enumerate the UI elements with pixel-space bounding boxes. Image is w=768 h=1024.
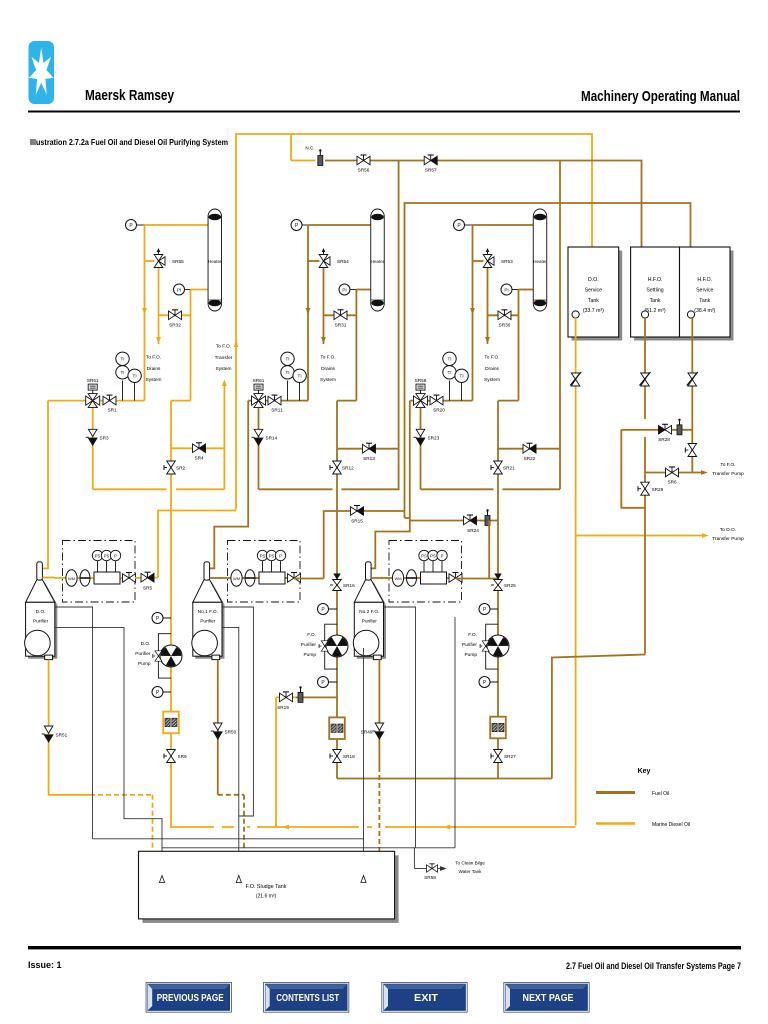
svg-text:To F.O.: To F.O. (320, 355, 335, 361)
header rule (28, 111, 740, 113)
bypass valve pump-2 (319, 641, 328, 651)
valve SR23 (414, 429, 440, 445)
svg-text:2.7 Fuel Oil and Diesel Oil Tr: 2.7 Fuel Oil and Diesel Oil Transfer Sys… (566, 961, 741, 972)
relief valve SR53 (483, 248, 513, 268)
valve SR29 (638, 482, 664, 495)
svg-text:SR24: SR24 (467, 528, 479, 533)
valve SR20 (430, 395, 445, 412)
gauge P pump-2 top (318, 604, 329, 615)
wire MDO SR19 branch (276, 697, 337, 827)
svg-text:SR49: SR49 (361, 730, 373, 735)
svg-text:SR18: SR18 (343, 754, 355, 759)
svg-text:Service: Service (585, 287, 602, 293)
wire box-2 outlet (294, 578, 324, 580)
svg-text:SR19: SR19 (277, 705, 289, 710)
thermometers TI system 2 (281, 352, 307, 382)
wire FO heater-2 loop (302, 225, 371, 401)
wire MDO crossover SR5 riser (158, 511, 236, 578)
svg-text:Tank: Tank (699, 298, 710, 304)
wire MDO heater-1 loop (137, 225, 209, 401)
wire FO heater-3 loop (465, 225, 534, 401)
svg-text:To F.O.: To F.O. (146, 355, 161, 361)
wire MDO purifier-1 feed (43, 401, 48, 569)
svg-text:To D.O.: To D.O. (720, 527, 736, 533)
svg-text:To F.O.: To F.O. (484, 355, 499, 361)
gauge P pump-2 bottom (318, 677, 329, 688)
valve SR16 (330, 574, 355, 591)
svg-text:N.C.: N.C. (305, 146, 314, 151)
valve SR57 (424, 155, 437, 173)
flow arrow up on MDO riser (234, 340, 239, 347)
wire MDO to D.O. transfer pump (576, 533, 709, 538)
wire FO manifold-3 (410, 381, 560, 490)
valve SR21 (491, 461, 515, 474)
svg-text:SR21: SR21 (503, 466, 515, 471)
quick-closing valve service tank (687, 372, 698, 386)
svg-text:F.O. Sludge Tank: F.O. Sludge Tank (246, 884, 287, 890)
gauge P pump-1 top (152, 613, 163, 624)
pressure gauge P heater-1 (126, 220, 137, 231)
wire FO pump column 2 (318, 489, 338, 778)
wire drain purifier-2 a (222, 607, 253, 816)
wire MDO manifold-1 (48, 381, 224, 490)
button exit (382, 982, 468, 1013)
wire drain purifier-2 b (222, 627, 239, 874)
svg-text:SR61: SR61 (87, 378, 99, 383)
gauge P pump-3 top (479, 604, 490, 615)
valve SR24 (464, 515, 480, 533)
svg-text:SR30: SR30 (499, 323, 511, 328)
svg-text:Drains: Drains (485, 366, 499, 372)
wire FO service tank outlet (691, 318, 693, 473)
svg-text:F.O.: F.O. (307, 632, 316, 638)
wire FO purifier-3 feed (371, 401, 410, 569)
svg-text:SR58: SR58 (415, 378, 427, 383)
svg-text:Pump: Pump (303, 652, 316, 658)
pressure gauge P heater-3 (454, 220, 465, 231)
label to F.O. transfer pump (712, 462, 744, 477)
wire purifier-3 nozzle link (371, 577, 383, 579)
footer issue (28, 960, 62, 970)
svg-text:Purifier: Purifier (135, 651, 151, 657)
key title (638, 768, 651, 775)
filter pump-2 (329, 717, 345, 739)
svg-text:F.O.: F.O. (468, 632, 477, 638)
svg-text:SR50: SR50 (225, 730, 237, 735)
valve SR11 (268, 395, 283, 412)
valve SR18 (330, 750, 355, 763)
wire FO crossover SR15 (324, 511, 405, 579)
svg-text:SR51: SR51 (56, 733, 68, 738)
svg-text:Service: Service (696, 287, 713, 293)
header manual title (581, 88, 740, 105)
valve SR51 (42, 726, 68, 742)
svg-text:SR12: SR12 (342, 466, 354, 471)
svg-text:Machinery Operating Manual: Machinery Operating Manual (581, 88, 740, 105)
label F.O. purifier pump 2 (462, 632, 478, 658)
svg-text:Key: Key (638, 768, 651, 775)
label D.O. purifier pump (135, 641, 151, 667)
svg-text:Maersk Ramsey: Maersk Ramsey (85, 88, 174, 104)
wire MDO SR51 column (49, 660, 153, 851)
svg-text:Issue: 1: Issue: 1 (28, 960, 62, 970)
tank H.F.O. settling (631, 247, 683, 341)
svg-text:Tank: Tank (650, 298, 661, 304)
svg-text:NEXT PAGE: NEXT PAGE (523, 993, 574, 1004)
thermometers TI system 3 (443, 352, 469, 382)
svg-text:Pump: Pump (464, 652, 477, 658)
wire FO to transfer pump (645, 470, 708, 475)
Maersk logo (29, 41, 55, 104)
valve SR22 (523, 443, 536, 461)
valve SR15 (351, 506, 364, 524)
wire drain purifier-1 a (55, 607, 93, 839)
svg-text:SR20: SR20 (433, 408, 445, 413)
pump D.O. purifier pump (160, 645, 182, 667)
svg-text:SR2: SR2 (176, 466, 186, 471)
gate valve at SR24 (485, 509, 490, 525)
footer rule (28, 946, 741, 949)
svg-text:SR5: SR5 (143, 586, 153, 591)
valve SR13 (363, 443, 376, 461)
svg-text:SR28: SR28 (658, 437, 670, 442)
svg-text:System: System (146, 377, 162, 383)
wire FO SR49 column (378, 660, 380, 851)
svg-text:SR27: SR27 (504, 754, 516, 759)
wire box-3 outlet (456, 521, 499, 579)
control box purifier-3 (381, 541, 462, 603)
heater No.2 (371, 209, 385, 311)
wire MDO top header line (236, 134, 592, 510)
svg-text:To F.O.: To F.O. (216, 344, 231, 350)
wire FO settling outlet upper (644, 318, 646, 419)
valve SR4 (193, 443, 206, 461)
svg-text:EXIT: EXIT (414, 993, 438, 1004)
wire FO crossover SR24 (410, 520, 498, 522)
svg-text:SR6: SR6 (667, 480, 677, 485)
control box purifier-1 (55, 541, 136, 603)
gauge PI heater-3 (501, 284, 512, 295)
svg-text:Purifier: Purifier (462, 642, 478, 648)
valve SR49 (361, 723, 384, 739)
valve SR9 (164, 750, 187, 763)
valve SR50 (211, 723, 237, 739)
svg-text:SR31: SR31 (335, 323, 347, 328)
svg-text:Settling: Settling (646, 287, 663, 293)
svg-text:PREVIOUS PAGE: PREVIOUS PAGE (157, 993, 224, 1004)
svg-text:Marine Diesel Oil: Marine Diesel Oil (652, 822, 690, 828)
svg-text:H.F.O.: H.F.O. (697, 277, 712, 283)
thermometers TI system 1 (116, 352, 142, 382)
valve SR32 (169, 310, 182, 328)
label to clean bilge water tank (455, 861, 485, 875)
svg-text:Drains: Drains (321, 366, 335, 372)
svg-text:SR54: SR54 (337, 259, 349, 264)
svg-text:System: System (484, 377, 500, 383)
svg-text:System: System (216, 366, 232, 372)
wire MDO D.O. tank outlet (575, 318, 577, 826)
valve SR56 (357, 155, 370, 173)
pump No.2 F.O. purifier pump (487, 635, 509, 657)
svg-text:SR56: SR56 (358, 168, 370, 173)
svg-text:SR22: SR22 (524, 456, 536, 461)
4-way valve SR61 no.2 (252, 378, 266, 408)
svg-text:No.2 F.O.: No.2 F.O. (359, 609, 379, 615)
wire FO header line B (405, 203, 691, 518)
svg-text:Tank: Tank (588, 298, 599, 304)
to FO transfer system label (215, 344, 233, 373)
gate valve at SR28 (677, 419, 682, 435)
purifier No.2 F.O. (353, 562, 386, 660)
wire drain header 2 (162, 848, 455, 869)
relief valve SR54 (319, 248, 349, 268)
gauge PI heater-1 (174, 284, 185, 295)
svg-text:SR57: SR57 (425, 168, 437, 173)
wire to clean bilge (414, 866, 446, 871)
filter pump-1 (163, 712, 179, 734)
svg-text:SR23: SR23 (428, 436, 440, 441)
bypass valve pump-1 (153, 651, 162, 661)
filter pump-3 (490, 717, 506, 739)
N.C. valve (305, 146, 322, 166)
svg-text:No.1 F.O.: No.1 F.O. (198, 609, 218, 615)
svg-text:(21.6 m³): (21.6 m³) (256, 894, 277, 900)
label to D.O. transfer pump (712, 527, 744, 542)
svg-text:(38.4 m³): (38.4 m³) (694, 308, 715, 314)
svg-text:Drains: Drains (147, 366, 161, 372)
gauge PI heater-2 (339, 284, 350, 295)
svg-text:Transfer: Transfer (215, 355, 233, 361)
valve SR14 (252, 429, 278, 445)
svg-text:SR15: SR15 (351, 519, 363, 524)
svg-text:Purifier: Purifier (33, 619, 49, 625)
valve SR25 (491, 574, 516, 591)
svg-text:Transfer Pump: Transfer Pump (712, 536, 744, 542)
wire FO purifier-2 feed (210, 401, 248, 569)
button contents list (263, 982, 349, 1013)
svg-text:Water Tank: Water Tank (459, 869, 483, 874)
tank H.F.O. service (680, 247, 734, 341)
valve SR31 (334, 310, 347, 328)
key fuel oil (596, 791, 669, 797)
heater No.1 (208, 209, 222, 311)
valve SR3 (86, 429, 109, 445)
wire drain header 1 (93, 838, 364, 840)
svg-text:SR32: SR32 (169, 323, 181, 328)
tank D.O. service (568, 247, 622, 341)
svg-text:SR58: SR58 (424, 875, 436, 880)
to FO drains system label 2 (320, 355, 336, 384)
header ship name (85, 88, 174, 104)
svg-text:Illustration 2.7.2a Fuel Oil a: Illustration 2.7.2a Fuel Oil and Diesel … (30, 137, 228, 147)
svg-text:SR25: SR25 (504, 583, 516, 588)
svg-text:To Clean Bilge: To Clean Bilge (455, 861, 485, 866)
label F.O. purifier pump 1 (301, 632, 317, 658)
svg-text:D.O.: D.O. (36, 609, 46, 615)
svg-text:SR1: SR1 (107, 408, 117, 413)
svg-text:Purifier: Purifier (362, 619, 378, 625)
wire drain box-3 (384, 607, 456, 848)
tank F.O. sludge (139, 851, 399, 923)
valve SR30 (498, 310, 511, 328)
gauge P pump-1 bottom (152, 687, 163, 698)
control box purifier-2 (220, 541, 301, 603)
svg-text:D.O.: D.O. (588, 277, 599, 283)
valve SR19 (277, 692, 292, 710)
valve SR27 (491, 750, 516, 763)
wire FO settling outlet lower (337, 437, 645, 779)
svg-text:SR13: SR13 (363, 456, 375, 461)
wire drain purifier-3 a (363, 648, 365, 874)
to FO drains system label 3 (484, 355, 500, 384)
valve SR28 (658, 424, 671, 442)
svg-text:Purifier: Purifier (301, 642, 317, 648)
wire purifier-1 nozzle link (42, 577, 54, 579)
purifier D.O. (25, 562, 58, 660)
svg-text:SR4: SR4 (194, 456, 204, 461)
svg-text:D.O.: D.O. (141, 641, 151, 647)
4-way valve SR58 no.3 (414, 378, 428, 408)
svg-text:To F.O.: To F.O. (720, 462, 735, 468)
wire FO pump column 3 (479, 489, 499, 778)
wire MDO bottom return (171, 825, 576, 830)
wire drain purifier-1 b (55, 627, 162, 874)
wire FO header line A (325, 161, 642, 491)
svg-text:SR16: SR16 (343, 583, 355, 588)
valve SR58 bilge (424, 864, 437, 880)
wire FO SR28 crossover (621, 430, 692, 508)
button next page (504, 982, 590, 1013)
pump No.1 F.O. purifier pump (326, 635, 348, 657)
wire MDO pump column 1 (152, 489, 171, 825)
svg-text:Pump: Pump (138, 661, 151, 667)
wire purifier-2 nozzle link (210, 577, 222, 579)
illustration title (30, 137, 228, 147)
heater No.3 (533, 209, 547, 311)
svg-text:H.F.O.: H.F.O. (648, 277, 663, 283)
footer section title (566, 961, 741, 972)
valve SR7 (685, 444, 696, 457)
svg-text:SR53: SR53 (501, 259, 513, 264)
svg-text:SR3: SR3 (100, 436, 110, 441)
svg-text:Purifier: Purifier (200, 619, 216, 625)
valve SR1 (103, 395, 117, 412)
quick-closing valve D.O. tank (570, 372, 581, 386)
quick-closing valve settling tank (640, 372, 651, 386)
valve SR12 (330, 461, 354, 474)
valve SR5 (135, 572, 158, 590)
relief valve SR55 (154, 248, 184, 268)
svg-text:SR29: SR29 (652, 487, 664, 492)
pressure gauge P heater-2 (291, 220, 302, 231)
svg-text:(33.7 m³): (33.7 m³) (583, 308, 604, 314)
wire FO manifold-2 (248, 381, 398, 490)
svg-text:SR61: SR61 (253, 378, 265, 383)
svg-text:SR55: SR55 (172, 259, 184, 264)
bypass valve pump-3 (480, 641, 489, 651)
svg-text:SR14: SR14 (266, 436, 278, 441)
valve SR2 (164, 461, 186, 474)
svg-text:Transfer Pump: Transfer Pump (712, 471, 744, 477)
svg-text:CONTENTS LIST: CONTENTS LIST (276, 993, 339, 1004)
valve SR6 (666, 467, 679, 485)
svg-text:SR9: SR9 (178, 754, 188, 759)
gate valve at SR19 (298, 686, 303, 702)
purifier No.1 F.O. (192, 562, 225, 660)
to FO drains system label 1 (146, 355, 162, 384)
gauge P pump-3 bottom (479, 677, 490, 688)
svg-text:SR11: SR11 (271, 408, 283, 413)
svg-text:Fuel Oil: Fuel Oil (652, 791, 669, 797)
key marine diesel oil (596, 822, 690, 828)
4-way valve SR61 no.1 (86, 378, 100, 408)
sludge inlet arrows (159, 876, 366, 883)
wire MDO transfer riser (222, 379, 227, 489)
svg-text:System: System (320, 377, 336, 383)
wire FO SR50 column (218, 660, 244, 851)
button previous page (146, 982, 232, 1013)
